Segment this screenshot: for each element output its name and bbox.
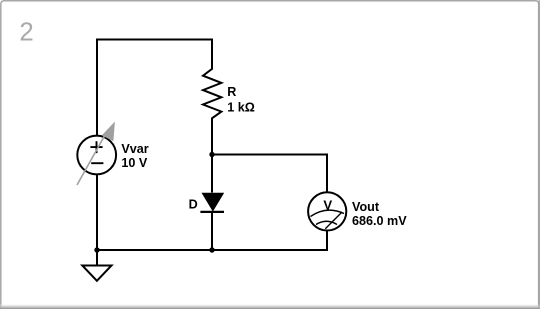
node C junction dot (ground node)	[94, 247, 99, 252]
wire: node C to ground symbol	[96, 250, 98, 265]
svg-text:10 V: 10 V	[121, 156, 148, 170]
svg-text:D: D	[189, 197, 198, 211]
svg-text:2: 2	[19, 18, 33, 46]
wire: bottom rail	[97, 249, 328, 251]
wire: node A to voltmeter top corner	[211, 154, 327, 156]
wire: Vvar plus terminal up to top-left corner	[96, 40, 98, 137]
voltmeter Vout	[308, 192, 346, 230]
wire: diode cathode to node B	[211, 212, 213, 250]
diode D	[200, 193, 224, 212]
wire: top-right corner down to resistor R top	[211, 39, 213, 65]
wire: node A down to diode anode	[211, 155, 213, 193]
node B junction dot (diode to bottom rail)	[209, 247, 214, 252]
resistor R	[203, 63, 221, 124]
wire: Vvar minus terminal down to node C	[96, 174, 98, 251]
svg-text:Vvar: Vvar	[121, 142, 148, 156]
ground	[82, 266, 111, 281]
wire: resistor bottom to node A	[211, 123, 213, 155]
variable-source arrow (gray)	[77, 122, 115, 186]
svg-text:1 kΩ: 1 kΩ	[227, 100, 255, 114]
svg-text:R: R	[227, 85, 236, 99]
node A junction dot (R / D / voltmeter)	[209, 152, 214, 157]
wire: corner down to voltmeter top	[326, 154, 328, 193]
wire: top rail	[96, 39, 213, 41]
svg-text:686.0 mV: 686.0 mV	[352, 214, 407, 228]
voltage source Vvar	[77, 136, 116, 175]
svg-text:Vout: Vout	[352, 200, 380, 214]
wire: voltmeter bottom to bottom rail	[326, 231, 328, 252]
